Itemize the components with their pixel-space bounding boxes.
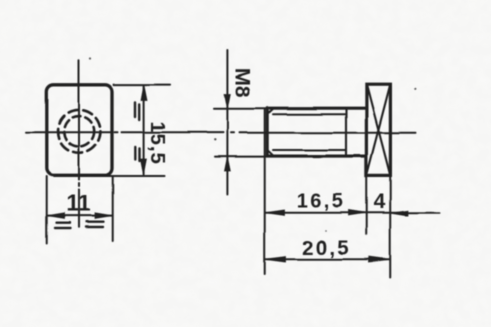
dim 20,5 arrow right xyxy=(369,257,390,262)
chamfer bottom-left xyxy=(267,150,273,156)
screw shank outline xyxy=(267,108,366,156)
equal mark lower xyxy=(135,147,139,161)
equal mark upper (two vertical ticks) xyxy=(135,103,139,120)
left view: square head outline xyxy=(47,85,112,176)
equal mark below-right xyxy=(86,222,104,227)
dim 16,5 arrow right / dim 4 outside arrow left xyxy=(349,210,366,215)
dim 16,5 arrow left xyxy=(265,210,284,215)
extension line head right xyxy=(389,176,391,278)
dim 11 arrow left xyxy=(47,213,64,219)
scan speck right of head xyxy=(415,88,417,90)
M8 arrow down (above, pointing to top line) xyxy=(225,94,231,108)
screw axis centerline xyxy=(207,132,416,134)
chamfer top-left xyxy=(267,108,273,114)
thread runout line xyxy=(345,108,347,155)
horizontal centerline left view xyxy=(26,131,208,133)
scan speck above left view xyxy=(89,57,91,59)
extension line bolt left end xyxy=(264,109,266,274)
dim 11 extension line left xyxy=(46,177,48,244)
scan speck below 20,5 area xyxy=(325,230,327,232)
head cross diagonal 2 xyxy=(367,85,391,176)
dim 11 dimension line xyxy=(47,215,113,217)
hole hidden circle outer xyxy=(58,110,101,153)
scan speck near M8 ext xyxy=(214,139,216,141)
head cross diagonal 1 xyxy=(367,85,391,176)
M8 extension line bottom xyxy=(215,156,266,158)
dim 16,5 / 4 dimension line xyxy=(265,212,440,214)
dim 15,5 dimension line xyxy=(143,85,145,174)
vertical centerline left view xyxy=(78,60,80,227)
thread core line top xyxy=(273,113,346,115)
thread core line bottom xyxy=(273,149,346,151)
dim 4 outside arrow right xyxy=(391,211,408,216)
equal mark below-left (two horizontal ticks) xyxy=(55,223,71,228)
dim 11 arrow right xyxy=(95,213,112,219)
dim 20,5 arrow left xyxy=(265,257,286,262)
dim 20,5 dimension line xyxy=(265,258,390,260)
dim 15,5 extension line top xyxy=(114,84,171,86)
screw head outline xyxy=(366,84,390,175)
hole hidden circle inner xyxy=(64,116,94,146)
dim 15,5 arrow up xyxy=(141,85,147,101)
M8 dimension line vertical xyxy=(226,50,228,195)
extension line shank-head junction xyxy=(365,176,367,234)
dim 15,5 arrow down xyxy=(140,159,146,174)
M8 arrow up (below, pointing to bottom line) xyxy=(225,157,231,171)
M8 extension line top xyxy=(214,108,266,110)
dim 11 extension line right xyxy=(112,177,114,242)
dim 15,5 extension line bottom xyxy=(106,175,165,177)
